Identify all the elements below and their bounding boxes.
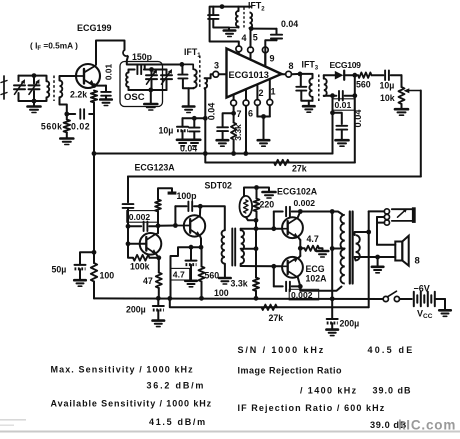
svg-text:50µ: 50µ xyxy=(52,265,67,275)
capacitor 150p xyxy=(136,65,138,74)
pin 1 stub xyxy=(269,80,271,100)
svg-text:/ 1400 kHz: / 1400 kHz xyxy=(300,386,358,396)
svg-text:kIC.com: kIC.com xyxy=(398,418,456,433)
node xyxy=(375,255,380,260)
wire: Q3 emitter xyxy=(200,236,201,247)
wire: AF input drop xyxy=(127,177,129,203)
wire: pin4 feed loop xyxy=(210,7,239,46)
svg-text:ECG123A: ECG123A xyxy=(135,163,176,173)
antenna rod marker xyxy=(3,76,5,99)
driver core xyxy=(231,229,233,266)
ground (0.04 AGC) xyxy=(189,139,201,142)
node: Q2 collector node xyxy=(156,223,161,228)
node: antenna cap top xyxy=(32,73,37,78)
svg-text:560: 560 xyxy=(205,271,220,281)
ground (50u) xyxy=(74,279,86,282)
variable capacitor (osc tuning) xyxy=(166,70,168,76)
svg-text:8: 8 xyxy=(289,61,294,71)
node xyxy=(156,255,161,260)
ground (10u) xyxy=(177,139,189,142)
wire: volume out right rail xyxy=(420,91,422,177)
capacitor 0.04 (IFT2) xyxy=(276,39,278,40)
node xyxy=(271,226,276,231)
wire: to ground xyxy=(263,117,265,140)
svg-text:Max. Sensitivity / 1000 kHz: Max. Sensitivity / 1000 kHz xyxy=(51,365,194,375)
wire: Q2-Q3 coupling xyxy=(158,225,175,227)
svg-text:6: 6 xyxy=(248,109,253,119)
svg-text:OSC: OSC xyxy=(124,92,145,103)
capacitor 0.04 (AGC) xyxy=(193,118,195,127)
speaker xyxy=(395,242,402,261)
ground (IFT3) xyxy=(308,101,310,106)
IFT3 primary coil xyxy=(300,74,313,78)
wire: 100p branch xyxy=(174,206,176,225)
svg-text:102A: 102A xyxy=(306,274,328,284)
svg-text:100: 100 xyxy=(100,271,115,281)
wire: secondary bottom to speaker xyxy=(378,256,396,258)
wire: 0.01 detector branch xyxy=(324,95,337,97)
svg-text:200µ: 200µ xyxy=(340,319,360,329)
ground (4.7) xyxy=(317,250,329,253)
wire: pin7 cap branch xyxy=(223,113,234,126)
ground (pot) xyxy=(401,104,403,108)
wire: bottom 0.002 branch xyxy=(273,266,275,286)
svg-text:3.3k: 3.3k xyxy=(231,279,248,289)
node xyxy=(203,151,208,156)
svg-text:2.2k: 2.2k xyxy=(70,90,87,100)
ground (IFT2) xyxy=(224,29,236,32)
svg-text:0.002: 0.002 xyxy=(129,212,151,222)
svg-text:ECG: ECG xyxy=(306,264,325,274)
antenna coil T1 primary xyxy=(46,76,48,82)
IFT1 secondary coil xyxy=(205,78,208,88)
svg-text:9: 9 xyxy=(270,54,275,64)
resistor 4.7 (emitters) xyxy=(305,246,320,251)
wire: 0.04 to pin9 xyxy=(265,40,276,66)
node xyxy=(198,204,203,209)
pin 2 circle xyxy=(255,100,261,106)
node: IFT1 top xyxy=(180,62,185,67)
svg-text:47: 47 xyxy=(143,276,153,286)
IFT2 primary coil xyxy=(238,7,240,11)
wire xyxy=(435,298,445,300)
wire: to volume pot xyxy=(401,75,403,87)
node xyxy=(330,246,335,251)
node: pin7 branch xyxy=(231,111,236,116)
node xyxy=(199,245,204,250)
wire: x94 rail lower xyxy=(93,154,95,253)
node xyxy=(366,230,371,235)
wire: jack c1 line xyxy=(368,211,370,232)
svg-text:0.04: 0.04 xyxy=(281,19,298,29)
node: osc cap top xyxy=(149,67,154,72)
output transformer core xyxy=(349,212,351,284)
wire: center tap rail xyxy=(331,212,333,299)
svg-text:100: 100 xyxy=(214,288,229,298)
node xyxy=(231,151,236,156)
svg-text:1: 1 xyxy=(271,87,276,97)
svg-text:560: 560 xyxy=(356,80,371,90)
pin 9 circle xyxy=(262,47,268,53)
label 0.002 boxed xyxy=(289,289,319,300)
ground (speaker return) xyxy=(377,257,379,266)
capacitor 50u xyxy=(75,264,86,266)
svg-text:0.02: 0.02 xyxy=(71,122,90,132)
svg-text:ECG109: ECG109 xyxy=(330,60,362,70)
wire: lower return line xyxy=(170,298,369,307)
wire: supply rail xyxy=(93,297,95,300)
wire: x94 rail upper xyxy=(93,103,95,154)
node xyxy=(254,218,259,223)
node xyxy=(298,209,303,214)
earphone plug xyxy=(392,208,413,210)
pin 2 stub xyxy=(256,85,258,100)
svg-text:0.002: 0.002 xyxy=(294,198,316,208)
variable capacitor C1a (antenna tuning) xyxy=(14,84,25,86)
capacitor 10u (electrolytic) xyxy=(182,118,184,126)
resistor 3.3k (pin7) xyxy=(231,123,236,140)
IFT2 core (dashed) xyxy=(243,8,245,29)
svg-text:−6V: −6V xyxy=(414,284,430,294)
svg-text:560k: 560k xyxy=(41,122,63,132)
svg-text:40.5 dE: 40.5 dE xyxy=(368,345,415,355)
ground (pins 2,1) xyxy=(258,139,270,142)
capacitor 0.01 (detector) xyxy=(338,91,340,100)
wire: Q2 emitter xyxy=(156,254,159,272)
resistor R1 560k xyxy=(64,120,70,133)
IFT3 tank capacitor xyxy=(300,74,302,86)
wire: emitter to rail xyxy=(171,247,192,298)
wire: sec center tap xyxy=(241,248,256,250)
wire: Q4 collector xyxy=(298,212,301,218)
transistor Q4 ECG102A xyxy=(282,217,303,238)
svg-text:0.01: 0.01 xyxy=(104,64,114,81)
node xyxy=(298,246,303,251)
IFT1 core (dashed) xyxy=(199,56,201,90)
wire: top 0.002 branch xyxy=(273,212,275,229)
IFT1 tank capacitor xyxy=(181,64,183,73)
svg-text:SDT02: SDT02 xyxy=(205,181,232,191)
transistor Q3 ECG123A xyxy=(184,215,205,236)
node xyxy=(192,116,197,121)
node: antenna cap bottom xyxy=(32,99,37,104)
capacitor 10u (AGC/vol) xyxy=(384,70,386,80)
wire: antenna tuning loop xyxy=(19,75,46,77)
switch S1 xyxy=(383,296,388,301)
pin 5 stub xyxy=(250,47,252,59)
wire: Q1 collector loop xyxy=(96,41,125,65)
svg-text:4.7: 4.7 xyxy=(173,270,185,280)
wire: osc bottom xyxy=(129,89,167,91)
resistor 100 xyxy=(91,263,97,282)
svg-text:36.2 dB/m: 36.2 dB/m xyxy=(147,381,206,391)
wire: IFT1 sec top to pin3 xyxy=(205,74,213,78)
ground (200u left) xyxy=(153,319,165,322)
wire: oscillator top line xyxy=(127,57,182,65)
node xyxy=(167,296,172,301)
resistor 3.3k xyxy=(253,278,259,292)
node xyxy=(352,93,357,98)
svg-text:0.04: 0.04 xyxy=(180,144,197,154)
diode D1 ECG109 xyxy=(335,71,344,80)
wire: stub jog up to top line xyxy=(144,65,146,70)
wire: jack c2/c3 xyxy=(377,216,384,218)
capacitor 0.002 (input) xyxy=(123,203,134,205)
svg-text:0.01: 0.01 xyxy=(335,100,352,110)
ground (osc) xyxy=(150,90,152,103)
pin 4 stub xyxy=(238,46,240,54)
variable capacitor (osc padder) xyxy=(151,70,153,76)
svg-text:200µ: 200µ xyxy=(126,305,146,315)
resistor 27k (lower) xyxy=(262,305,278,310)
capacitor 0.002 (bottom) xyxy=(285,282,287,291)
svg-text:2: 2 xyxy=(259,88,264,98)
wire: emitter node left xyxy=(191,246,201,248)
pin 4 circle xyxy=(236,46,242,52)
ground (200u right) xyxy=(326,328,338,331)
node xyxy=(330,93,335,98)
svg-text:4: 4 xyxy=(242,33,247,43)
node xyxy=(271,264,276,269)
svg-text:8: 8 xyxy=(415,256,420,267)
node xyxy=(254,296,259,301)
scan artifact bottom line xyxy=(0,431,460,433)
IFT3 secondary coil xyxy=(323,75,325,78)
svg-text:3: 3 xyxy=(214,61,219,71)
wire: Q5 collector xyxy=(298,277,301,286)
oscillator coil OSC xyxy=(128,70,130,73)
svg-text:39.0 dB: 39.0 dB xyxy=(373,386,412,396)
ground (driver primary) xyxy=(219,277,231,280)
capacitor (series coupling) xyxy=(128,225,141,227)
pin 9 stub xyxy=(264,47,266,66)
wire: pin6 down xyxy=(245,106,247,154)
transistor Q2 ECG123A xyxy=(140,233,162,255)
wire: x332.5 vertical xyxy=(332,96,334,154)
battery B1 -6V xyxy=(413,292,415,306)
node xyxy=(92,250,97,255)
potentiometer 10k xyxy=(399,87,405,104)
ground (IFT1) xyxy=(188,88,190,105)
output transformer secondary xyxy=(355,232,369,235)
node: detector out xyxy=(352,73,357,78)
node xyxy=(126,241,131,246)
pin 1 circle xyxy=(267,99,273,105)
wire: bias top stub xyxy=(158,188,172,199)
pin 3 input xyxy=(213,71,219,77)
pin 6 stub xyxy=(245,89,247,100)
svg-text:S/N / 1000 kHz: S/N / 1000 kHz xyxy=(238,345,326,355)
svg-text:IF Rejection Ratio / 600 kHz: IF Rejection Ratio / 600 kHz xyxy=(238,403,386,413)
driver transformer primary xyxy=(222,230,225,264)
resistor 100k xyxy=(133,255,150,261)
earphone jack contacts xyxy=(384,209,389,214)
svg-text:220: 220 xyxy=(260,200,275,210)
node: Q1 emitter xyxy=(92,83,97,88)
wire: sec top to diode xyxy=(324,74,335,76)
svg-text:Image Rejection Ratio: Image Rejection Ratio xyxy=(238,366,343,376)
resistor R2 2.2k xyxy=(91,91,97,103)
svg-text:10k: 10k xyxy=(380,93,395,103)
wire: pin7 down xyxy=(233,106,235,123)
ground (4.7u) xyxy=(185,279,197,282)
wire: var cap feed xyxy=(145,69,167,71)
label 0.002 boxed xyxy=(127,211,159,223)
wire xyxy=(400,298,412,300)
pin 7 stub xyxy=(233,95,235,101)
svg-text:41.5 dB/m: 41.5 dB/m xyxy=(149,417,207,427)
svg-text:ECG1013: ECG1013 xyxy=(229,70,269,80)
svg-text:( IF =0.5mA ): ( IF =0.5mA ) xyxy=(30,41,78,53)
driver transformer secondary xyxy=(241,230,244,264)
transistor Q5 ECG102A xyxy=(282,257,303,278)
node xyxy=(298,284,303,289)
capacitor 0.04 (det) xyxy=(336,125,347,127)
svg-text:0.04: 0.04 xyxy=(206,103,216,121)
wire: IFT1 sec bottom down xyxy=(204,88,207,153)
svg-text:Available Sensitivity / 1000 k: Available Sensitivity / 1000 kHz xyxy=(51,399,213,409)
ground (pin7 cap) xyxy=(217,139,229,142)
capacitor 200u (left) xyxy=(157,298,159,305)
resistor 560 (detector) xyxy=(358,73,372,78)
node xyxy=(261,114,266,119)
wire: IFT1 top corner xyxy=(182,64,193,69)
svg-text:27k: 27k xyxy=(269,313,284,323)
node: IFT3 top xyxy=(298,72,303,77)
svg-text:ECG102A: ECG102A xyxy=(277,187,318,197)
svg-text:4.7: 4.7 xyxy=(307,234,319,244)
node: Q3 base node xyxy=(173,223,178,228)
svg-text:100p: 100p xyxy=(177,191,198,201)
wire xyxy=(66,114,68,120)
label 0.01 boxed xyxy=(333,99,355,110)
node xyxy=(203,116,208,121)
ground (0.01 bypass) xyxy=(100,98,112,101)
node: IFT2 top xyxy=(220,4,225,9)
wire: x355 vertical xyxy=(354,75,356,96)
capacitor 0.01 (emitter bypass) xyxy=(101,91,111,93)
capacitor 200u (right) xyxy=(331,299,333,319)
resistor 27k (wire B) xyxy=(274,160,289,165)
wire C: volume to AF amp xyxy=(128,176,421,178)
capacitor 0.002 (top) xyxy=(285,207,287,216)
svg-text:0.04: 0.04 xyxy=(353,109,363,128)
ground (0.04 det) xyxy=(336,139,349,142)
node: 560k / 0.02 junction xyxy=(64,112,69,117)
node: IFT2 sec bottom / pin5 wire xyxy=(249,26,254,31)
svg-text:3.3k: 3.3k xyxy=(233,124,243,141)
node xyxy=(330,296,335,301)
antenna coil core (dashed) xyxy=(53,76,55,102)
wire: emitter bypass branch xyxy=(94,85,106,87)
ground (bias) xyxy=(257,188,270,192)
resistor (collector bias) xyxy=(157,212,159,226)
node xyxy=(330,209,335,214)
wire: secondary top to Q1 base xyxy=(60,76,77,81)
antenna coil secondary xyxy=(60,81,63,98)
emitter bus xyxy=(299,238,301,240)
wire: OT primary top xyxy=(300,212,342,215)
svg-text:100k: 100k xyxy=(130,261,150,271)
wire: sec bottom xyxy=(240,264,242,266)
resistor 560 (Q3) xyxy=(201,247,203,266)
svg-text:ECG199: ECG199 xyxy=(77,23,112,33)
wire xyxy=(251,28,276,30)
svg-text:150p: 150p xyxy=(132,52,153,62)
node xyxy=(243,151,248,156)
wire: center tap xyxy=(332,248,344,250)
resistor 47 xyxy=(156,273,162,289)
ground (battery) xyxy=(439,309,451,312)
pin 8 output xyxy=(282,73,286,75)
wire: secondary bottom to 560k node xyxy=(60,97,67,114)
capacitor 100p xyxy=(175,205,186,207)
svg-text:10µ: 10µ xyxy=(380,81,395,91)
node xyxy=(156,296,161,301)
node: 0.04 branch xyxy=(330,110,335,115)
node xyxy=(92,151,97,156)
IFT1 primary coil xyxy=(194,69,197,88)
capacitor 0.04 (pin7) xyxy=(217,126,228,128)
IFT2 tank capacitor xyxy=(212,7,214,15)
node xyxy=(254,226,259,231)
svg-text:10µ: 10µ xyxy=(159,126,174,136)
wire: IFT2 top xyxy=(222,6,251,8)
wire: Q3 collector xyxy=(199,206,201,216)
variable capacitor C1b (antenna trimmer) xyxy=(33,76,35,84)
node xyxy=(189,245,194,250)
node: bias top xyxy=(254,185,259,190)
IFT3 core (dashed) xyxy=(318,75,320,102)
ground (560k) xyxy=(60,137,73,140)
wire: Q3 collector to driver xyxy=(200,206,225,230)
wire: sec top xyxy=(240,229,242,231)
wire: AGC line (10u/0.04) xyxy=(183,117,206,119)
IFT2 secondary coil xyxy=(250,13,253,29)
capacitor C2 0.02 xyxy=(67,113,75,115)
transistor Q1 ECG199 xyxy=(76,64,100,88)
pin 5 circle xyxy=(248,47,254,53)
pin 7 circle xyxy=(231,100,237,106)
pin 6 circle xyxy=(243,100,249,106)
capacitor 4.7u xyxy=(190,247,192,260)
wire A: AGC return xyxy=(94,153,333,155)
wire: bias vertical xyxy=(255,220,257,277)
resistor 220 xyxy=(256,188,258,199)
label 4.7 boxed xyxy=(171,268,190,280)
wire B: 27k line xyxy=(205,154,354,163)
thermistor xyxy=(244,188,257,197)
node xyxy=(254,246,259,251)
pot wiper arrow xyxy=(407,90,421,92)
wire: return riser xyxy=(368,232,370,307)
wire: 0.04 branch xyxy=(333,113,342,124)
output transformer primary xyxy=(340,215,344,284)
wire: 150p stub xyxy=(129,69,135,71)
node: osc bottom xyxy=(148,88,153,93)
svg-text:7: 7 xyxy=(237,109,242,119)
wire: to 100k xyxy=(128,244,133,258)
svg-text:5: 5 xyxy=(253,33,258,43)
wire: pins 2,1 merge xyxy=(256,105,258,116)
wire: base line xyxy=(127,226,129,244)
svg-text:27k: 27k xyxy=(292,164,307,174)
wire: 50u branch xyxy=(80,252,94,264)
IC U1 ECG1013 triangle xyxy=(227,49,282,98)
node xyxy=(126,224,131,229)
oscillator can outline xyxy=(120,62,163,107)
ground (antenna) xyxy=(33,101,35,106)
